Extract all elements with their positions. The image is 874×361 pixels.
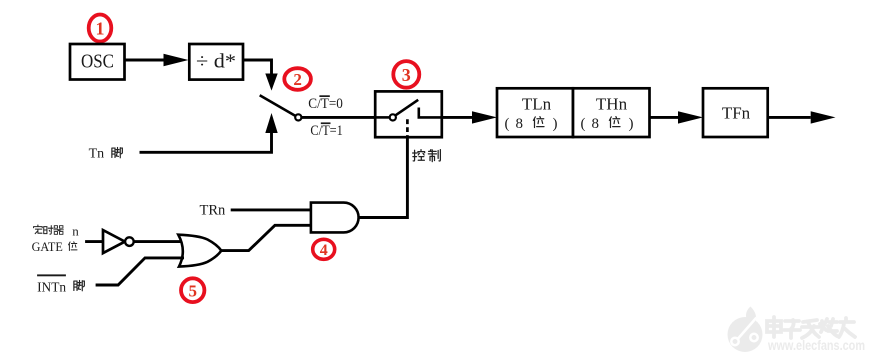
svg-text:3: 3	[402, 65, 411, 85]
svg-text:TLn: TLn	[522, 95, 552, 114]
wire THn to TFn with arrowhead	[650, 111, 704, 123]
badge 3	[393, 61, 419, 88]
register THn (8-bit)	[573, 88, 650, 137]
wire TRn to AND gate	[231, 208, 311, 211]
dashed control line inside box	[406, 119, 409, 137]
svg-text:C/T=1: C/T=1	[310, 123, 343, 139]
svg-text:4: 4	[320, 242, 328, 259]
svg-text:Tn: Tn	[89, 147, 105, 162]
svg-text:8: 8	[516, 116, 524, 132]
wire NOT gate to OR gate	[134, 240, 181, 243]
register TLn (8-bit)	[497, 88, 573, 137]
label C/T=1	[310, 122, 343, 139]
label 控制	[413, 150, 441, 162]
wire OSC to divider with arrowhead	[125, 54, 189, 66]
svg-text:n: n	[72, 223, 79, 238]
OR gate U4	[178, 235, 221, 267]
wire divider to switch with down arrowhead	[243, 60, 278, 91]
svg-text:(: (	[581, 116, 586, 132]
svg-text:INTn: INTn	[37, 280, 66, 295]
svg-text:THn: THn	[596, 95, 628, 114]
svg-text:): )	[629, 116, 634, 132]
switch S1 pole (C/T select)	[260, 95, 302, 120]
badge 2	[284, 68, 311, 90]
badge 1	[89, 15, 112, 42]
label 定时器 n	[34, 223, 80, 238]
svg-text:÷ d*: ÷ d*	[196, 51, 236, 73]
wire AND output to control line	[359, 137, 408, 217]
label C/T=0	[308, 95, 343, 112]
svg-text:5: 5	[188, 281, 197, 300]
block divide-by-d (÷d*)	[189, 44, 243, 80]
badge 4	[313, 239, 335, 259]
badge 5	[181, 278, 204, 302]
svg-text:GATE: GATE	[32, 240, 64, 254]
wire control gate to TLn with arrowhead	[442, 111, 497, 123]
flag TFn	[703, 88, 768, 137]
svg-text:(: (	[505, 116, 510, 132]
watermark logo circle	[728, 307, 763, 353]
svg-text:www.elecfans.com: www.elecfans.com	[767, 337, 865, 353]
wire Tn pin to switch with up arrowhead	[140, 113, 278, 152]
wire switch to control gate	[301, 116, 375, 119]
switch S2 inside control box	[375, 100, 442, 121]
AND gate U2	[311, 203, 359, 233]
wire OR gate to AND gate	[221, 225, 311, 250]
svg-text:TRn: TRn	[200, 203, 227, 219]
label INTn pin with overline	[37, 274, 84, 295]
NOT gate U3	[103, 230, 134, 253]
wire INTn pin to OR gate	[96, 258, 184, 285]
label GATE 位	[32, 240, 77, 254]
svg-text:): )	[553, 116, 558, 132]
control gate box U1	[375, 91, 442, 137]
svg-text:OSC: OSC	[81, 51, 114, 73]
svg-text:C/T=0: C/T=0	[308, 96, 343, 112]
label Tn pin (Tn 脚)	[89, 147, 123, 162]
svg-text:1: 1	[96, 19, 105, 39]
watermark text 电子发烧友	[767, 317, 855, 338]
wire GATE to NOT gate	[85, 240, 103, 243]
svg-text:8: 8	[592, 116, 600, 132]
svg-text:TFn: TFn	[722, 104, 751, 123]
svg-text:2: 2	[293, 70, 302, 89]
block OSC (oscillator)	[70, 44, 125, 80]
wire TFn to output (interrupt) with arrowhead	[768, 111, 836, 123]
